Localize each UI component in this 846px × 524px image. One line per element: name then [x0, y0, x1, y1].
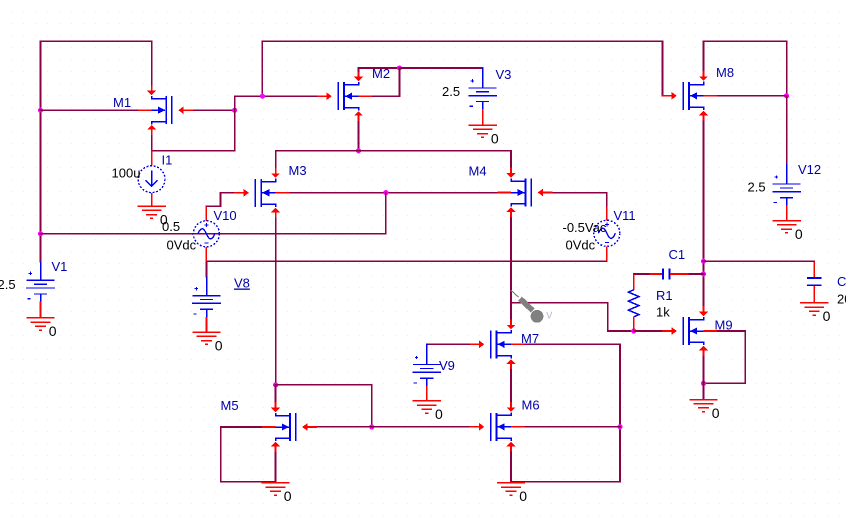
wire M2 source down to diff-pair row [358, 121, 360, 151]
svg-text:2.5: 2.5 [0, 277, 16, 292]
svg-text:M7: M7 [521, 331, 539, 346]
svg-text:0: 0 [435, 406, 443, 422]
wire M7 bulk loop [511, 344, 620, 482]
wire M2 drain top to V3 node [359, 68, 400, 71]
wire M4 gate to V11 [552, 193, 607, 207]
svg-text:I1: I1 [162, 153, 173, 168]
node junction V1 rail / V10 row [38, 231, 43, 236]
wire M3 M4 bulk row [290, 192, 497, 194]
node junction M3 source / M5 drain [273, 382, 278, 387]
node junction V1 top / M1 bulk [38, 108, 43, 113]
svg-text:V: V [546, 310, 552, 320]
battery V12 [772, 164, 801, 220]
wire M5-M6 gate row [317, 426, 471, 428]
svg-text:V3: V3 [496, 67, 512, 82]
wire M3 source long vertical [275, 218, 277, 385]
wire M6 bulk to loop [526, 426, 621, 428]
wire C2 row [704, 260, 815, 263]
node junction M2 source / M3 M4 drains [356, 148, 361, 153]
wire M4 source down to M7 drain [510, 217, 512, 319]
wire M5 diode loop [276, 385, 372, 427]
capacitor C1 [649, 269, 688, 280]
svg-text:V12: V12 [798, 162, 821, 177]
svg-text:V11: V11 [614, 208, 636, 223]
svg-text:M6: M6 [522, 398, 540, 413]
svg-text:V10: V10 [214, 208, 237, 223]
wire first-stage output to R1 row [511, 303, 634, 331]
wire M2 bulk riser [373, 68, 400, 96]
svg-text:0: 0 [795, 226, 803, 242]
battery V1 [26, 262, 55, 318]
svg-text:0: 0 [519, 488, 527, 504]
source V10 [193, 206, 219, 261]
wire M8 drain top loop [704, 41, 787, 96]
node junction M8 bulk / V12 [784, 93, 789, 98]
node junction output / C1 row [701, 271, 706, 276]
svg-text:2.5: 2.5 [442, 84, 460, 99]
wire V10 minus node down to V8 [206, 261, 208, 276]
wire M1 bulk to rail [41, 109, 138, 111]
wire M5 source to ground [275, 452, 277, 482]
wire V10 plus jog to M3 gate [206, 193, 234, 207]
node junction bulk row tap [383, 190, 388, 195]
svg-text:C2: C2 [837, 274, 846, 289]
ground C2 [800, 303, 828, 315]
wire jog column M2-gate to M1-source row [234, 96, 236, 151]
wire M7 source to M6 drain [510, 369, 512, 402]
svg-text:0: 0 [712, 405, 720, 421]
voltage probe [511, 290, 552, 322]
wire left VDD rail [40, 41, 42, 261]
svg-text:M2: M2 [372, 66, 390, 81]
svg-text:0: 0 [491, 131, 499, 147]
wire V12 top lead [786, 96, 788, 164]
svg-text:M3: M3 [289, 163, 307, 178]
battery V9 [412, 344, 441, 400]
wire M1 source stub [151, 135, 153, 151]
wire C1 left to R1 top [634, 274, 650, 275]
wire M1 source row [152, 150, 235, 152]
svg-text:-0.5Vac: -0.5Vac [563, 220, 607, 235]
node junction bias drop / M2 gate [260, 94, 265, 99]
svg-text:V8: V8 [234, 276, 250, 291]
svg-text:1k: 1k [656, 305, 670, 320]
svg-text:M5: M5 [221, 398, 239, 413]
wire bias rail top [262, 41, 662, 96]
svg-text:20p: 20p [837, 292, 846, 307]
wire M9 source to ground [703, 356, 705, 399]
wire output column [703, 121, 705, 307]
transistor M3 [234, 168, 289, 218]
wire bias rail drop to M2 gate [262, 41, 317, 96]
transistor M8 [662, 71, 717, 121]
svg-text:M4: M4 [469, 164, 487, 179]
wire jog to bias rail drop [235, 95, 263, 97]
ground I1 [137, 206, 165, 218]
source V11 [594, 206, 620, 261]
svg-text:0: 0 [215, 338, 223, 354]
wire V10-V11 minus row [207, 260, 607, 262]
wire top-left VDD loop [41, 41, 152, 85]
svg-text:M1: M1 [113, 95, 131, 110]
battery V8 [192, 277, 221, 332]
wire M1 gate to jog column [193, 109, 235, 111]
wire V10 row [41, 233, 386, 235]
transistor M4 [497, 168, 552, 218]
svg-text:2.5: 2.5 [748, 180, 766, 195]
svg-text:0: 0 [49, 323, 57, 339]
capacitor C2 [807, 262, 822, 303]
svg-text:M8: M8 [716, 65, 734, 80]
svg-text:C1: C1 [669, 247, 686, 262]
ground V8 [192, 332, 220, 344]
svg-text:V1: V1 [52, 259, 68, 274]
node junction M1 gate column [232, 108, 237, 113]
transistor M5 [262, 402, 317, 452]
transistor M7 [470, 319, 525, 369]
wire M5 drain stub [275, 385, 277, 402]
wire C1 right lead wire [689, 273, 704, 275]
ground M5 [261, 483, 289, 495]
svg-text:0: 0 [284, 488, 292, 504]
svg-text:100u: 100u [112, 166, 141, 181]
ground V3 [468, 125, 496, 137]
wire bulk tap down to V1 row [385, 193, 387, 234]
battery V3 [468, 68, 497, 125]
ground M9 [689, 400, 717, 412]
svg-text:0Vdc: 0Vdc [167, 238, 197, 253]
resistor R1 [628, 274, 639, 331]
wire M9 bulk loop [704, 331, 746, 383]
wire M6 source to ground [510, 452, 512, 483]
transistor M1 [138, 85, 193, 135]
node junction M6 bulk / M7 loop [617, 424, 622, 429]
svg-text:V9: V9 [439, 358, 455, 373]
ground M6 [497, 483, 525, 495]
wire M8 bulk row [718, 95, 787, 97]
svg-text:0: 0 [823, 308, 831, 324]
transistor M9 [662, 306, 717, 356]
wire diff-pair drain row [276, 151, 511, 168]
node junction M9 source / ground [701, 381, 706, 386]
node junction M2 drain / bulk / V3 [397, 65, 402, 70]
wire V3 top lead wire [400, 67, 483, 69]
wire R1 junction to M9 gate [634, 330, 663, 332]
ground V9 [413, 401, 441, 413]
svg-text:M9: M9 [715, 318, 733, 333]
current source I1 [138, 151, 165, 206]
node junction R1 bottom / M9 gate [631, 328, 636, 333]
wire M5 bulk loop [221, 427, 276, 482]
ground V1 [26, 318, 54, 330]
svg-text:R1: R1 [656, 288, 673, 303]
svg-text:0.5: 0.5 [162, 219, 180, 234]
svg-text:0Vdc: 0Vdc [566, 238, 596, 253]
node junction M5 gate row [369, 424, 374, 429]
node junction output / C2 row [701, 259, 706, 264]
transistor M6 [470, 402, 525, 452]
ground V12 [772, 221, 800, 233]
transistor M2 [317, 71, 372, 121]
